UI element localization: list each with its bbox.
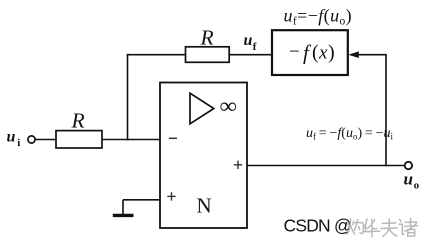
- op-amp U1 box: [160, 83, 247, 229]
- svg-text:u: u: [7, 128, 16, 145]
- wire feedback left vertical: [127, 54, 129, 140]
- svg-text:R: R: [71, 109, 85, 133]
- svg-text:uf=−f(uo): uf=−f(uo): [284, 6, 353, 28]
- plus output marker: [234, 161, 242, 169]
- block U1 -f(x): [272, 30, 348, 75]
- wire feedback right vertical: [385, 55, 387, 167]
- svg-text:o: o: [414, 180, 420, 192]
- svg-text:u: u: [244, 32, 253, 49]
- watermark CJK glyphs: [347, 219, 417, 237]
- ground stem: [122, 200, 124, 214]
- svg-text:∞: ∞: [219, 94, 237, 118]
- wire arrow feed from output to f-box: [356, 54, 387, 56]
- svg-text:i: i: [17, 137, 20, 149]
- svg-text:x: x: [318, 43, 328, 64]
- plus noninverting input marker: [167, 192, 175, 200]
- watermark char fu: [381, 219, 397, 236]
- svg-text:CSDN @: CSDN @: [284, 216, 351, 236]
- svg-text:uf = −f(uo) = −ui: uf = −f(uo) = −ui: [306, 126, 394, 142]
- wire op-amp output to uo terminal: [247, 165, 405, 167]
- wire noninverting input to ground: [123, 199, 160, 201]
- resistor R2 feedback: [186, 47, 230, 63]
- svg-text:f: f: [253, 41, 257, 53]
- op-amp triangle symbol: [190, 93, 214, 124]
- wire R2 to f-box: [229, 54, 272, 56]
- watermark char zhu: [399, 219, 417, 237]
- svg-text:(: (: [312, 42, 319, 64]
- wire input to R1: [35, 139, 56, 141]
- watermark char zhuo: [347, 219, 355, 234]
- svg-text:): ): [328, 42, 335, 64]
- watermark char hua: [364, 219, 380, 237]
- svg-text:f: f: [303, 41, 312, 65]
- svg-text:N: N: [197, 194, 212, 218]
- svg-text:R: R: [200, 25, 214, 49]
- wire feedback top horizontal: [127, 54, 186, 56]
- svg-text:−: −: [289, 42, 300, 63]
- wire R1 to op-amp inverting input: [102, 139, 160, 141]
- ground bar: [113, 214, 134, 217]
- arrowhead into f-box: [348, 51, 359, 58]
- resistor R1: [56, 131, 102, 148]
- svg-text:u: u: [404, 169, 413, 188]
- minus inverting input marker: [169, 137, 177, 139]
- output terminal circle: [405, 162, 412, 169]
- input terminal circle: [28, 136, 35, 143]
